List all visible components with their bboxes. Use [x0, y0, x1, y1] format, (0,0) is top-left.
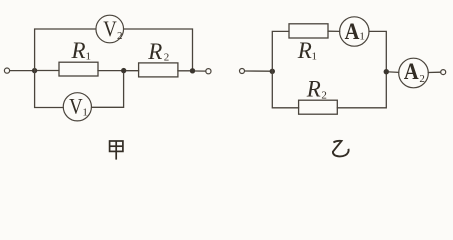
- wire top-right branch: [124, 29, 193, 68]
- wire top-left branch: [35, 29, 96, 71]
- ammeter A1: [340, 17, 369, 46]
- resistor R1 (yi): [289, 24, 328, 38]
- voltmeter V1: [63, 93, 91, 121]
- svg-text:1: 1: [82, 107, 88, 119]
- wire: [126, 70, 138, 72]
- svg-text:1: 1: [312, 50, 318, 62]
- wire bottom branch to R2 (yi): [272, 71, 298, 107]
- svg-text:1: 1: [86, 51, 92, 63]
- svg-text:2: 2: [321, 90, 327, 102]
- wire: [389, 71, 399, 74]
- wire: [369, 31, 386, 69]
- wire: [328, 30, 340, 32]
- svg-text:2: 2: [117, 30, 123, 42]
- wire: [195, 70, 206, 72]
- svg-text:A: A: [345, 19, 360, 44]
- ammeter A2: [399, 58, 429, 88]
- node B junction: [121, 68, 126, 73]
- wire: [428, 71, 440, 73]
- wire bottom-right branch: [92, 73, 124, 107]
- svg-text:R: R: [297, 38, 312, 63]
- svg-text:V: V: [103, 16, 117, 41]
- resistor R2 (yi): [299, 100, 338, 114]
- svg-text:R: R: [71, 38, 86, 63]
- svg-text:2: 2: [164, 51, 170, 63]
- wire: [98, 70, 121, 72]
- svg-text:1: 1: [359, 31, 365, 43]
- wire: [37, 70, 59, 72]
- wire top branch to R1 (yi): [272, 31, 289, 71]
- label jia (Chinese character): [110, 141, 123, 160]
- terminal right (circuit yi): [441, 70, 446, 75]
- terminal left (circuit yi): [240, 69, 245, 74]
- svg-text:R: R: [147, 39, 162, 64]
- label yi (Chinese character): [333, 141, 349, 157]
- resistor R2 (jia): [139, 63, 178, 77]
- wire bottom-left branch: [35, 71, 64, 108]
- wire: [337, 74, 386, 108]
- resistor R1 (jia): [59, 62, 98, 76]
- svg-text:A: A: [404, 59, 419, 84]
- wire: [245, 70, 270, 72]
- wire: [10, 70, 32, 72]
- node left junction (yi): [270, 69, 275, 74]
- svg-text:R: R: [306, 77, 321, 102]
- node C junction: [190, 68, 195, 73]
- svg-text:2: 2: [419, 73, 425, 85]
- node A junction: [32, 68, 37, 73]
- svg-text:V: V: [69, 94, 83, 119]
- terminal right (circuit jia): [206, 69, 211, 74]
- voltmeter V2: [96, 15, 124, 43]
- wire: [178, 70, 190, 72]
- terminal left (circuit jia): [4, 68, 9, 73]
- node right junction (yi): [384, 69, 389, 74]
